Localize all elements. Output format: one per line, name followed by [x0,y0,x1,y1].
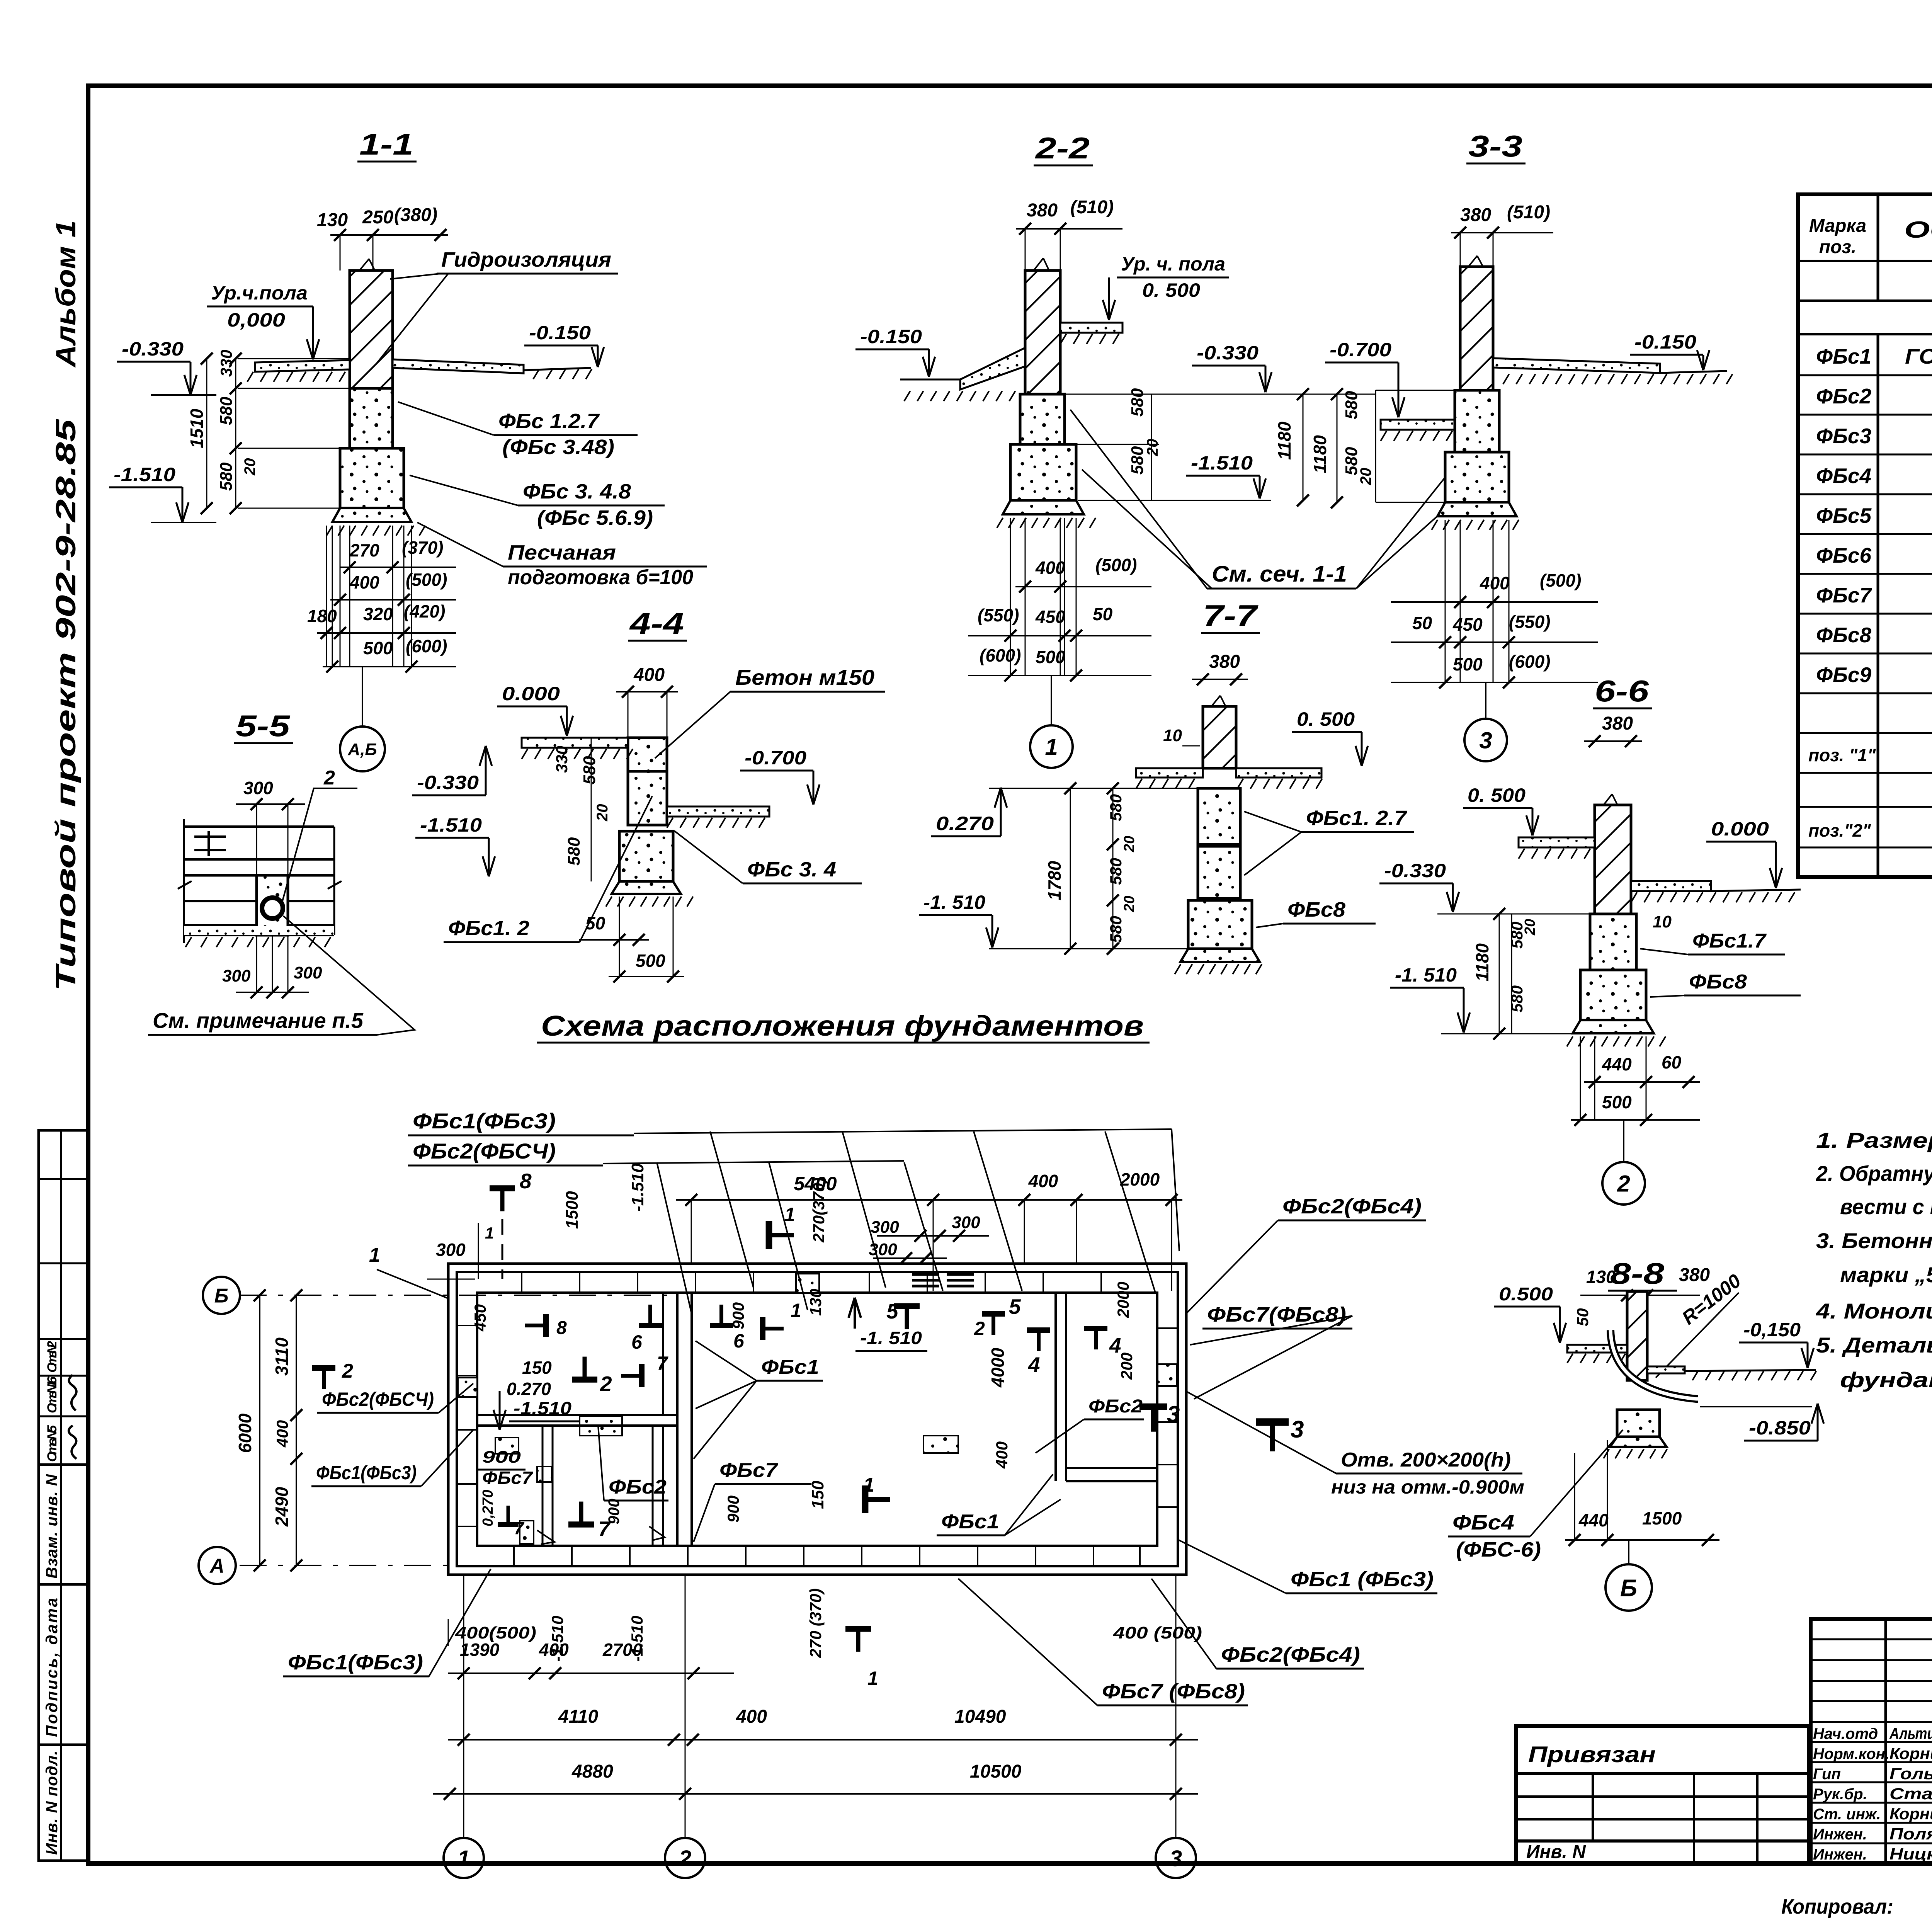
svg-text:Норм.кон.: Норм.кон. [1813,1746,1889,1763]
svg-text:580: 580 [1107,916,1125,943]
svg-text:-0,150: -0,150 [1743,1319,1801,1341]
svg-text:Б: Б [1620,1575,1637,1601]
svg-text:500: 500 [1036,647,1065,667]
wall break mark [359,259,369,271]
svg-text:1510: 1510 [187,408,207,448]
svg-text:0. 500: 0. 500 [1297,708,1355,730]
svg-text:-1.510: -1.510 [420,814,482,836]
svg-text:1: 1 [791,1300,801,1321]
FBS1 7-7 [1198,788,1240,844]
8 section marks above plan [490,1185,515,1191]
svg-text:(550): (550) [1509,612,1550,632]
left room wall [477,1424,677,1427]
slab left 6-6 [1519,837,1595,847]
svg-text:ФБс2(ФБс4): ФБс2(ФБс4) [1282,1195,1422,1218]
svg-text:580: 580 [217,396,236,425]
slab right 6-6 [1631,881,1711,891]
plan outer walls [448,1264,1186,1575]
sand pad 1-1 [332,508,412,522]
small arrows bottom-left [537,1530,554,1544]
svg-text:ФБс7 (ФБс8): ФБс7 (ФБс8) [1102,1680,1245,1703]
pad 2-2 [1003,500,1084,514]
svg-text:-0.330: -0.330 [417,772,479,793]
svg-text:440: 440 [1578,1510,1609,1530]
svg-text:1500: 1500 [563,1191,582,1229]
svg-text:ФБс1. 2: ФБс1. 2 [448,917,529,940]
svg-text:3: 3 [1479,728,1492,754]
svg-text:Полякова: Полякова [1889,1825,1932,1843]
svg-text:ФБс8: ФБс8 [1816,623,1871,647]
svg-text:ФБс1: ФБс1 [941,1511,999,1533]
svg-text:10: 10 [1653,912,1672,931]
svg-text:(420): (420) [404,601,445,621]
svg-text:1: 1 [1045,734,1058,760]
svg-text:0.270: 0.270 [936,813,994,834]
pad 3-3 [1437,502,1517,516]
svg-text:ФБс6: ФБс6 [1816,543,1871,567]
svg-text:поз.: поз. [1819,237,1856,257]
svg-text:0,000: 0,000 [227,309,285,331]
svg-text:ФБс1.7: ФБс1.7 [1692,930,1767,952]
svg-text:150: 150 [522,1358,552,1378]
FBS block lower 1-1 [340,448,404,508]
svg-text:1. Размеры и обозначения в: 1. Размеры и обозначения в скобках даны … [1816,1128,1932,1152]
svg-text:440: 440 [1602,1054,1632,1074]
right slab 8-8 [1647,1366,1685,1373]
svg-text:Инв. N подл.: Инв. N подл. [43,1751,61,1855]
svg-text:ФБс1 (ФБс3): ФБс1 (ФБс3) [1291,1568,1434,1591]
svg-text:Привязан: Привязан [1528,1742,1656,1767]
svg-text:ФБс7: ФБс7 [1816,583,1872,607]
break marks 5-5 [178,881,192,889]
T2 marker left outside [312,1365,335,1371]
svg-text:Б: Б [214,1285,229,1307]
pad 7-7 [1180,949,1260,962]
svg-text:-0.850: -0.850 [1749,1417,1811,1439]
svg-text:1: 1 [863,1474,874,1496]
svg-text:Отв. N 16: Отв. N 16 [45,1376,60,1413]
svg-text:ФБс4: ФБс4 [1816,464,1871,488]
svg-text:7: 7 [657,1353,668,1374]
svg-text:300: 300 [952,1213,980,1232]
FBS2 7-7 [1198,846,1240,898]
svg-text:450: 450 [471,1304,489,1332]
FBS block 8-8 [1617,1410,1660,1437]
specification table grid [1798,194,1932,877]
svg-text:3: 3 [1167,1401,1180,1427]
FBS lower 3-3 [1445,452,1509,502]
svg-text:50: 50 [1093,604,1113,624]
svg-text:1-1: 1-1 [359,127,413,161]
ramp left 2-2 [960,348,1025,390]
FBS upper 2-2 [1020,394,1065,444]
FBS8 7-7 [1188,900,1252,949]
svg-text:580: 580 [1508,985,1526,1012]
svg-text:-0.330: -0.330 [1197,342,1259,364]
5-5 wall plan fragment [184,825,334,828]
svg-text:380: 380 [1209,652,1240,672]
svg-text:(ФБс 5.6.9): (ФБс 5.6.9) [537,506,653,529]
svg-text:400 (500): 400 (500) [1113,1623,1202,1642]
svg-text:2: 2 [342,1360,353,1382]
svg-text:Рук.бр.: Рук.бр. [1813,1786,1867,1803]
svg-text:фундамент см. чертеж ГС л.: фундамент см. чертеж ГС л.6. [1840,1368,1932,1392]
svg-text:2: 2 [323,767,335,789]
section 2-2 wall [1025,271,1060,394]
svg-text:580: 580 [1107,858,1125,885]
svg-text:Гольдина: Гольдина [1889,1764,1932,1783]
svg-text:Ур. ч. пола: Ур. ч. пола [1121,253,1225,275]
svg-text:Копировал:: Копировал: [1781,1895,1893,1918]
svg-text:10: 10 [1163,726,1182,745]
wall band joints top [521,1272,522,1293]
svg-text:-0.700: -0.700 [745,747,806,769]
svg-text:(600): (600) [1509,652,1550,672]
svg-text:Песчаная: Песчаная [508,541,616,564]
svg-text:0. 500: 0. 500 [1468,784,1526,806]
svg-text:А: А [209,1555,224,1577]
svg-text:2: 2 [974,1318,985,1339]
right room wall [1065,1293,1067,1481]
svg-text:380: 380 [1679,1265,1710,1285]
svg-text:10490: 10490 [954,1707,1006,1727]
big up arrow near 5 [854,1298,856,1329]
svg-text:6: 6 [733,1330,745,1352]
svg-text:-0.150: -0.150 [529,322,591,344]
svg-text:1: 1 [485,1224,494,1242]
svg-text:20: 20 [241,458,259,476]
svg-text:330: 330 [553,746,571,773]
svg-text:1: 1 [369,1244,380,1266]
svg-text:900: 900 [729,1302,747,1329]
svg-text:400: 400 [1028,1171,1058,1191]
svg-text:ФБс1(ФБс3): ФБс1(ФБс3) [316,1462,417,1484]
svg-text:130: 130 [317,210,348,230]
svg-text:-1.510: -1.510 [514,1398,571,1418]
left slab 8-8 [1567,1345,1627,1353]
stipple blocks in walls [796,1274,819,1293]
svg-text:8: 8 [556,1318,567,1338]
svg-text:ФБс3: ФБс3 [1816,424,1871,448]
svg-text:ФБс 3. 4: ФБс 3. 4 [747,858,836,881]
svg-text:400: 400 [1480,573,1510,593]
svg-text:250: 250 [362,207,393,228]
svg-text:(ФБС-6): (ФБС-6) [1456,1538,1541,1561]
svg-text:3: 3 [1170,1846,1182,1871]
svg-text:ФБс8: ФБс8 [1287,898,1345,921]
ground slab right 4-4 [667,806,769,817]
svg-text:6000: 6000 [235,1413,255,1453]
svg-text:ГОСТ 13579-78: ГОСТ 13579-78 [1905,344,1932,368]
svg-text:ФБс4: ФБс4 [1452,1511,1514,1534]
svg-text:Инжен.: Инжен. [1813,1846,1867,1863]
svg-text:Гип: Гип [1813,1766,1841,1783]
svg-text:Взам. инв. N: Взам. инв. N [43,1473,61,1579]
axis circle 1 [444,1838,484,1878]
svg-text:А,Б: А,Б [347,740,377,759]
svg-text:1180: 1180 [1310,435,1330,473]
svg-text:Бетон м150: Бетон м150 [735,665,874,689]
svg-text:(510): (510) [1507,202,1550,223]
svg-text:См. примечание п.5: См. примечание п.5 [153,1008,364,1033]
svg-text:20: 20 [594,804,611,822]
svg-text:Нач.отд: Нач.отд [1813,1725,1878,1742]
svg-text:(ФБс 3.48): (ФБс 3.48) [502,436,614,459]
svg-text:Альбом 1: Альбом 1 [51,220,82,368]
svg-text:-1. 510: -1. 510 [1395,964,1457,986]
T1 marker above plan [766,1221,772,1249]
svg-text:400: 400 [273,1420,291,1448]
svg-text:20: 20 [1121,896,1138,912]
svg-text:500: 500 [1453,654,1483,674]
left dims plan [296,1295,297,1565]
svg-text:4000: 4000 [988,1348,1008,1388]
svg-text:(370): (370) [402,538,443,558]
top dim line 5400/400/2000 [676,1199,1182,1201]
svg-text:ФБс2(ФБСЧ): ФБс2(ФБСЧ) [322,1388,434,1410]
svg-text:низ на отм.-0.900м: низ на отм.-0.900м [1331,1476,1524,1498]
svg-text:ФБс2: ФБс2 [1816,384,1871,408]
svg-text:Ницкевич: Ницкевич [1889,1845,1932,1863]
svg-text:(510): (510) [1070,197,1114,218]
markers inside plan [543,1314,549,1337]
svg-text:130: 130 [806,1289,825,1316]
svg-text:Альтшумлер: Альтшумлер [1889,1724,1932,1742]
svg-text:Гидроизоляция: Гидроизоляция [441,248,611,271]
concrete col 4-4 upper [628,738,667,771]
svg-text:4: 4 [1028,1353,1040,1376]
FBS upper 3-3 [1455,390,1499,452]
svg-text:ФБс 3. 4.8: ФБс 3. 4.8 [523,480,631,503]
bottom partition 2 [662,1426,664,1546]
svg-text:3-3: 3-3 [1468,129,1522,163]
FBS lower 2-2 [1010,444,1076,500]
internal walls [676,1293,679,1546]
FBS block 4-4 [619,831,673,881]
axis circle 1 [1051,675,1052,725]
svg-text:марки „50” с перевязкой швов: марки „50” с перевязкой швов не менее 30… [1840,1262,1932,1287]
svg-text:-1.510: -1.510 [628,1163,647,1211]
svg-text:6-6: 6-6 [1595,674,1649,708]
svg-text:1390: 1390 [460,1640,500,1660]
pad 8-8 [1610,1437,1667,1447]
svg-text:6: 6 [631,1331,643,1353]
svg-text:ФБс2(ФБСЧ): ФБс2(ФБСЧ) [413,1139,556,1163]
svg-text:130: 130 [1586,1267,1616,1287]
svg-text:2-2: 2-2 [1035,131,1090,165]
svg-text:500: 500 [363,638,393,658]
svg-text:50: 50 [585,913,605,933]
svg-text:ФБс9: ФБс9 [1816,663,1871,687]
section 1-1 wall [350,271,393,388]
svg-text:150: 150 [808,1480,827,1509]
svg-text:400(500): 400(500) [455,1623,536,1642]
svg-text:Марка: Марка [1809,216,1866,236]
svg-text:Обозначение: Обозначение [1904,217,1932,243]
axis circle A,B under 1-1 [362,667,363,727]
svg-text:-0.150: -0.150 [1634,331,1696,353]
svg-text:ФБс2(ФБс4): ФБс2(ФБс4) [1221,1643,1360,1666]
svg-text:1: 1 [457,1846,470,1871]
svg-text:ФБс7: ФБс7 [719,1459,778,1482]
svg-text:1180: 1180 [1472,943,1492,982]
axis circle 3 [1485,682,1486,718]
leader fan into plan top [634,1129,1172,1133]
concrete col 4-4 mid [628,771,667,825]
svg-text:50: 50 [1412,613,1432,633]
svg-text:380: 380 [1460,205,1491,225]
svg-text:0.500: 0.500 [1499,1284,1553,1305]
svg-text:Отв. N 2: Отв. N 2 [45,1341,60,1373]
svg-text:500: 500 [1602,1092,1632,1112]
svg-text:8: 8 [520,1169,532,1193]
svg-text:ФБс 1.2.7: ФБс 1.2.7 [498,410,600,433]
svg-text:20: 20 [1522,919,1538,936]
svg-text:поз. "1": поз. "1" [1808,745,1876,765]
svg-text:-1. 510: -1. 510 [860,1328,922,1348]
svg-text:ФБс1. 2.7: ФБс1. 2.7 [1306,806,1408,830]
svg-text:Ст. инж.: Ст. инж. [1813,1806,1881,1823]
svg-text:400: 400 [993,1441,1011,1469]
svg-text:20: 20 [1121,836,1138,852]
axis circle B [1628,1540,1629,1564]
svg-text:-1. 510: -1. 510 [923,892,985,913]
svg-text:5: 5 [1009,1295,1021,1319]
svg-text:1780: 1780 [1044,861,1065,900]
floor slab left 1-1 [255,360,350,372]
svg-text:580: 580 [217,462,236,491]
floor right 2-2 [1060,323,1122,333]
svg-text:вести с послойным уплотнени: вести с послойным уплотнением до γск=160… [1840,1194,1932,1219]
section 3-3 wall [1460,267,1493,390]
svg-text:1: 1 [867,1667,878,1689]
svg-text:580: 580 [1128,388,1147,417]
svg-text:-0.330: -0.330 [122,338,184,360]
svg-text:5-5: 5-5 [236,709,291,743]
svg-text:подготовка б=100: подготовка б=100 [508,566,693,589]
axis circles left [203,1277,240,1314]
pipe curve 8-8 [1611,1330,1698,1399]
svg-text:20: 20 [1144,439,1161,457]
svg-text:0.000: 0.000 [1711,818,1769,840]
svg-text:2000: 2000 [1114,1282,1132,1318]
axis circle 3 [1156,1838,1196,1878]
svg-text:2. Обратную засыпку пазух ф: 2. Обратную засыпку пазух фундаментов и … [1816,1161,1932,1186]
axis2 wall [690,1293,693,1546]
right room bottom wall [1066,1480,1157,1482]
svg-text:270 (370): 270 (370) [806,1588,825,1658]
svg-text:(380): (380) [394,205,437,225]
wall band joints left/right [457,1325,477,1326]
svg-text:Станина: Станина [1889,1785,1932,1803]
svg-text:400: 400 [633,665,665,685]
pad 6-6 [1573,1020,1654,1033]
svg-text:Инв. N: Инв. N [1526,1842,1586,1862]
svg-text:2: 2 [1617,1171,1630,1197]
pad 4-4 [612,881,681,894]
svg-text:4880: 4880 [571,1761,613,1782]
svg-text:300: 300 [871,1218,899,1237]
svg-text:Подпись, дата: Подпись, дата [43,1598,61,1737]
right dim chain 2-2 [1060,394,1376,395]
svg-text:-1.510: -1.510 [548,1616,566,1662]
svg-text:0.000: 0.000 [502,683,560,704]
svg-text:поз."2": поз."2" [1808,820,1871,840]
svg-text:5: 5 [886,1299,899,1323]
floor left 3-3 [1381,420,1460,430]
svg-text:-1.510: -1.510 [1191,452,1253,474]
bottom-left partition [552,1426,554,1546]
svg-text:4110: 4110 [558,1707,599,1727]
small top room wall [662,1293,664,1415]
svg-text:(500): (500) [1095,555,1137,575]
extension lines to axis circles [463,1575,464,1838]
section 7-7 wall [1203,706,1236,768]
svg-text:270(370): 270(370) [810,1177,828,1243]
svg-text:900: 900 [482,1448,521,1467]
svg-text:Корнилова: Корнилова [1889,1744,1932,1763]
axis dash lines [240,1295,676,1296]
svg-text:580: 580 [1342,391,1361,419]
svg-text:300: 300 [243,778,273,798]
svg-text:0.270: 0.270 [507,1379,551,1399]
wall band joints bottom [513,1546,515,1566]
monolithic marks on top wall [912,1273,939,1276]
svg-text:Отв. 200×200(h): Отв. 200×200(h) [1341,1449,1511,1471]
svg-text:450: 450 [1452,614,1483,635]
svg-text:(550): (550) [978,605,1019,625]
svg-text:Инжен.: Инжен. [1813,1826,1867,1843]
floor slab left 4-4 [522,738,628,748]
svg-text:ФБс1(ФБс3): ФБс1(ФБс3) [288,1651,423,1674]
privyazan table [1516,1726,1809,1863]
section 6-6 wall [1595,805,1631,914]
svg-text:580: 580 [580,756,599,784]
svg-text:500: 500 [636,951,665,971]
svg-text:ФБс7(ФБс8): ФБс7(ФБс8) [1207,1303,1346,1326]
svg-text:2: 2 [679,1846,691,1871]
svg-text:330: 330 [217,350,235,377]
left dim chain 1-1 [238,358,350,359]
axis circle 2 [1623,1120,1624,1162]
svg-text:-0.700: -0.700 [1330,339,1391,361]
svg-text:300: 300 [222,966,251,985]
svg-text:2: 2 [600,1372,612,1396]
svg-text:8-8: 8-8 [1610,1256,1665,1290]
pipe hole [262,898,283,919]
svg-text:Типовой проект 902-9-28.85: Типовой проект 902-9-28.85 [51,419,82,991]
svg-text:ФБс2: ФБс2 [609,1476,667,1498]
svg-text:380: 380 [1027,200,1058,221]
svg-text:320: 320 [363,604,393,624]
axis circle 2 [665,1838,705,1878]
svg-text:3110: 3110 [272,1337,292,1376]
svg-text:2000: 2000 [1120,1169,1160,1189]
svg-text:(500): (500) [1540,570,1581,590]
svg-text:10500: 10500 [970,1761,1022,1782]
section 8-8 wall [1627,1291,1647,1380]
svg-text:580: 580 [565,837,583,866]
svg-text:50: 50 [1573,1308,1592,1326]
svg-text:ФБс1(ФБс3): ФБс1(ФБс3) [413,1109,556,1133]
svg-text:60: 60 [1662,1052,1682,1072]
svg-text:4. Монолитные участки стен: 4. Монолитные участки стен выполнить из … [1816,1299,1932,1323]
svg-text:Ур.ч.пола: Ур.ч.пола [211,282,308,304]
svg-text:ФБс1: ФБс1 [1816,344,1871,368]
svg-text:300: 300 [294,963,322,982]
title block signature table [1811,1619,1932,1863]
svg-text:300: 300 [436,1240,466,1260]
